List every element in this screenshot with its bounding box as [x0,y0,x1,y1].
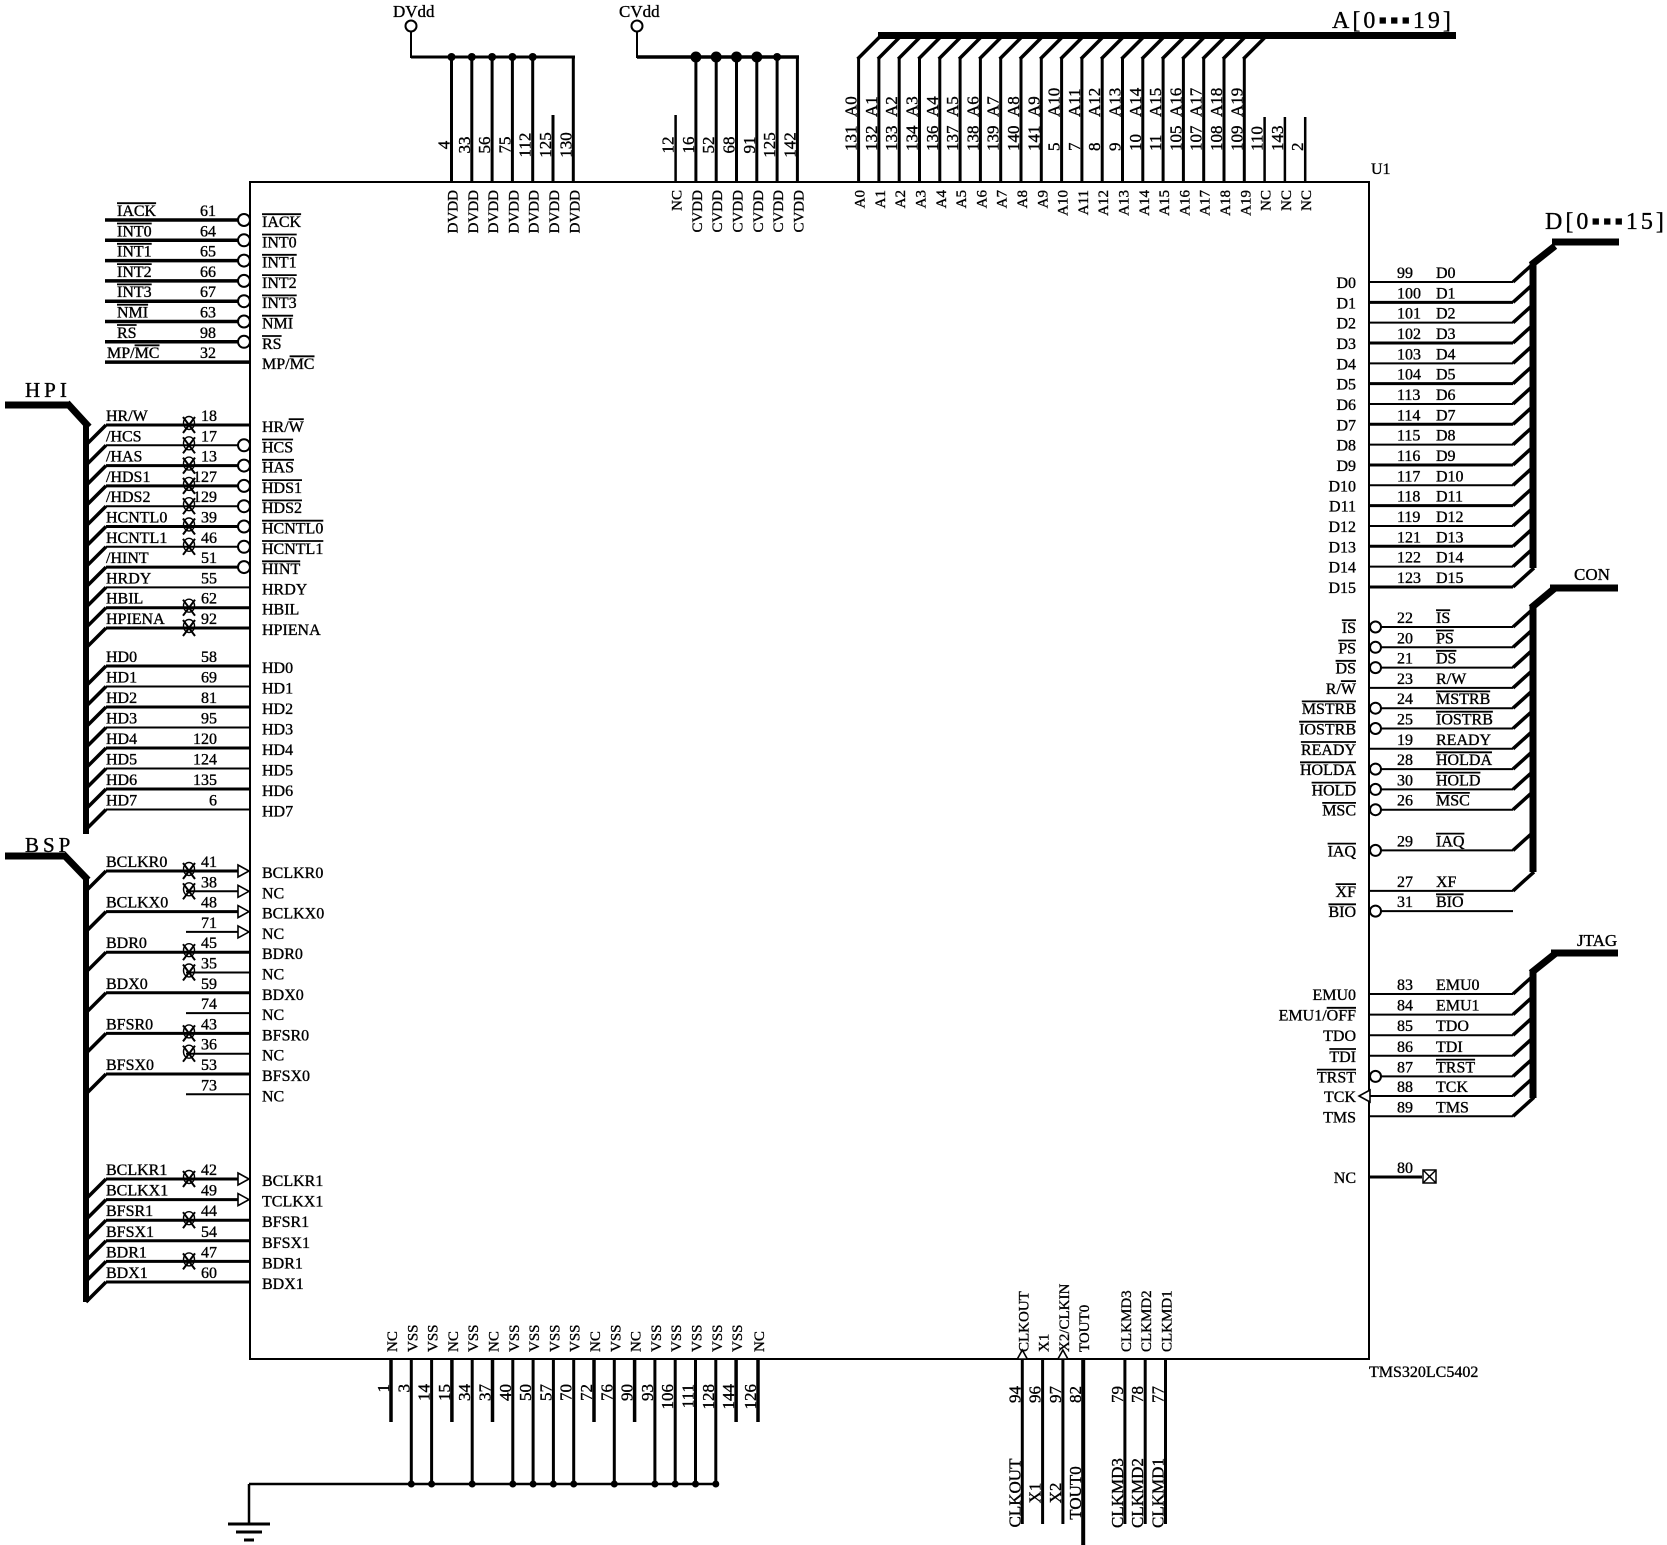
svg-text:TMS: TMS [1323,1109,1356,1126]
svg-text:TCK: TCK [1436,1079,1468,1096]
svg-text:BFSR0: BFSR0 [262,1027,309,1044]
pin 135 HD6 wire [86,772,293,809]
svg-text:CVDD: CVDD [710,190,726,233]
svg-text:DVDD: DVDD [446,190,462,233]
svg-text:A14: A14 [1137,190,1153,216]
pin 25 IOSTRB wire [1299,710,1534,739]
svg-text:47: 47 [201,1244,217,1261]
svg-text:99: 99 [1397,265,1413,282]
svg-text:57: 57 [536,1384,555,1402]
svg-text:/HAS: /HAS [106,449,142,466]
svg-text:A10: A10 [1056,190,1072,216]
svg-text:BIO: BIO [1436,894,1464,911]
svg-text:26: 26 [1397,793,1413,810]
svg-text:HINT: HINT [262,561,300,578]
pin 119 D12 wire [1328,507,1534,536]
svg-text:127: 127 [193,469,217,486]
svg-text:A18: A18 [1207,88,1226,117]
svg-text:TRST: TRST [1317,1069,1356,1086]
wire ground rail [249,1484,717,1523]
pin 34 VSS wire [455,1324,482,1487]
svg-text:READY: READY [1301,742,1357,759]
svg-text:52: 52 [699,137,718,154]
svg-text:42: 42 [201,1162,217,1179]
svg-text:D11: D11 [1436,489,1463,506]
svg-text:109: 109 [1227,126,1246,152]
svg-text:/HDS1: /HDS1 [106,469,150,486]
svg-text:50: 50 [516,1384,535,1401]
svg-text:HD6: HD6 [106,772,137,789]
svg-text:66: 66 [200,264,216,281]
svg-text:VSS: VSS [710,1324,726,1352]
svg-text:140: 140 [1004,126,1023,152]
svg-text:139: 139 [984,126,1003,151]
svg-text:58: 58 [201,649,217,666]
pin 66 INT2 wire [105,264,297,292]
pin 144 VSS wire [719,1324,746,1422]
svg-text:96: 96 [1026,1386,1045,1403]
svg-text:CVDD: CVDD [771,190,787,233]
svg-text:NC: NC [385,1331,401,1352]
pin 59 BDX0 wire [86,976,304,1013]
pin 114 D7 wire [1336,405,1534,434]
svg-text:IACK: IACK [117,203,157,220]
svg-text:NC: NC [752,1331,768,1352]
svg-text:VSS: VSS [527,1324,543,1352]
svg-text:84: 84 [1397,998,1413,1015]
svg-text:143: 143 [1268,126,1287,152]
svg-text:BFSX1: BFSX1 [262,1235,310,1252]
svg-text:X2/CLKIN: X2/CLKIN [1057,1284,1073,1352]
svg-text:INT1: INT1 [262,255,297,272]
pin 42 BCLKR1 wire [86,1162,323,1199]
svg-text:HCNTL0: HCNTL0 [106,510,167,527]
svg-text:39: 39 [201,510,217,527]
pin 117 D10 wire [1328,466,1534,495]
pin 1 NC wire [374,1331,401,1422]
pin 5 A10 wire [1045,37,1083,216]
svg-text:103: 103 [1397,346,1421,363]
svg-text:HD7: HD7 [262,804,293,821]
svg-text:111: 111 [679,1384,698,1408]
svg-text:87: 87 [1397,1059,1413,1076]
svg-text:A13: A13 [1106,88,1125,117]
svg-text:INT3: INT3 [117,284,152,301]
svg-text:VSS: VSS [608,1324,624,1352]
svg-text:CLKMD3: CLKMD3 [1108,1458,1127,1528]
svg-text:85: 85 [1397,1018,1413,1035]
svg-text:BDX0: BDX0 [106,976,148,993]
pin 58 HD0 wire [86,649,293,686]
svg-text:A11: A11 [1065,88,1084,117]
svg-text:32: 32 [200,345,216,362]
svg-text:TCK: TCK [1324,1089,1356,1106]
svg-text:77: 77 [1149,1386,1168,1404]
svg-text:MP/MC: MP/MC [107,345,159,362]
pin 55 HRDY wire [86,570,308,607]
svg-text:73: 73 [201,1077,217,1094]
svg-text:CLKMD2: CLKMD2 [1139,1290,1155,1352]
pin 100 D1 wire [1336,283,1534,312]
svg-text:INT2: INT2 [117,264,152,281]
pin 126 NC wire [741,1331,768,1422]
pin 111 VSS wire [679,1324,706,1487]
pin 15 NC wire [435,1331,462,1422]
ground [228,1524,270,1540]
pin 32 MP/MC wire [105,345,315,373]
svg-text:D4: D4 [1436,346,1456,363]
svg-text:NC: NC [262,926,284,943]
pin 125 CVDD wire [760,53,787,233]
pin 36 NC wire [183,1037,284,1065]
svg-text:A3: A3 [914,190,930,208]
svg-text:A7: A7 [984,96,1003,117]
svg-text:VSS: VSS [405,1324,421,1352]
pin 68 CVDD wire [720,52,747,233]
pin 136 A4 wire [923,37,961,208]
svg-text:48: 48 [201,895,217,912]
pin 22 IS wire [1342,608,1534,637]
svg-text:TDI: TDI [1436,1039,1463,1056]
svg-text:D12: D12 [1436,509,1464,526]
svg-text:36: 36 [201,1037,217,1054]
svg-text:HCNTL1: HCNTL1 [106,530,167,547]
svg-text:89: 89 [1397,1099,1413,1116]
svg-text:NC: NC [1259,190,1275,211]
svg-text:15: 15 [435,1384,454,1401]
svg-text:30: 30 [1397,772,1413,789]
pin 128 VSS wire [699,1324,726,1487]
svg-text:DVDD: DVDD [567,190,583,233]
svg-text:91: 91 [740,137,759,154]
svg-text:VSS: VSS [669,1324,685,1352]
svg-text:107: 107 [1187,125,1206,151]
svg-text:HD5: HD5 [262,763,293,780]
svg-text:VSS: VSS [730,1324,746,1352]
svg-text:D8: D8 [1336,438,1356,455]
svg-text:IS: IS [1436,610,1450,627]
svg-text:131: 131 [842,126,861,152]
pin 23 R/W wire [1326,669,1534,698]
svg-text:141: 141 [1024,126,1043,152]
svg-text:A10: A10 [1045,88,1064,117]
svg-text:NC: NC [629,1331,645,1352]
svg-text:DVDD: DVDD [547,190,563,233]
svg-text:A19: A19 [1238,190,1254,216]
svg-text:41: 41 [201,854,217,871]
svg-text:117: 117 [1397,468,1420,485]
svg-text:EMU0: EMU0 [1436,977,1480,994]
svg-text:TDI: TDI [1329,1049,1356,1066]
svg-text:D2: D2 [1336,316,1356,333]
svg-text:X2: X2 [1046,1483,1065,1504]
svg-text:128: 128 [699,1384,718,1410]
pin 45 BDR0 wire [86,935,303,972]
svg-text:63: 63 [200,305,216,322]
svg-text:A15: A15 [1146,88,1165,117]
svg-text:A5: A5 [943,96,962,117]
pin 123 D15 wire [1328,568,1534,597]
svg-text:118: 118 [1397,489,1420,506]
pin 95 HD3 wire [86,711,293,748]
svg-text:MP/MC: MP/MC [262,356,314,373]
svg-text:A16: A16 [1177,190,1193,216]
svg-text:BCLKR1: BCLKR1 [106,1162,167,1179]
svg-text:69: 69 [201,670,217,687]
pin 20 PS wire [1338,628,1534,657]
svg-text:CVDD: CVDD [791,190,807,233]
svg-text:28: 28 [1397,752,1413,769]
svg-text:29: 29 [1397,833,1413,850]
pin 9 A13 wire [1106,37,1144,216]
svg-text:RS: RS [117,325,137,342]
svg-text:MSC: MSC [1322,803,1356,820]
svg-text:6: 6 [209,793,217,810]
svg-text:IAQ: IAQ [1328,843,1357,860]
svg-text:A13: A13 [1117,190,1133,216]
svg-text:HPI: HPI [25,378,71,402]
pin 11 A15 wire [1146,37,1184,216]
pin 104 D5 wire [1336,365,1534,394]
pin 43 BFSR0 wire [86,1016,309,1053]
svg-text:A15: A15 [1157,190,1173,216]
svg-text:A7: A7 [995,190,1011,209]
pin 134 A3 wire [903,37,941,208]
svg-text:DVDD: DVDD [506,190,522,233]
svg-text:122: 122 [1397,550,1421,567]
pin 53 BFSX0 wire [86,1057,310,1094]
pin 82 TOUT0 wire [1066,1305,1093,1545]
svg-text:TOUT0: TOUT0 [1077,1305,1093,1352]
svg-text:D4: D4 [1336,356,1356,373]
pin 38 NC wire [183,874,284,902]
pin 67 INT3 wire [105,284,297,312]
pin 47 BDR1 wire [86,1244,303,1281]
svg-text:18: 18 [201,408,217,425]
pin 31 BIO wire [1328,894,1513,921]
pin 81 HD2 wire [86,690,293,727]
svg-text:BIO: BIO [1328,904,1356,921]
power port DVdd [393,2,575,58]
svg-text:54: 54 [201,1224,217,1241]
pin 64 INT0 wire [105,223,297,251]
svg-text:76: 76 [597,1384,616,1401]
svg-text:74: 74 [201,996,217,1013]
node BSP bus [5,833,88,1302]
pin 60 BDX1 wire [86,1265,304,1302]
pin 106 VSS wire [658,1324,685,1487]
svg-text:138: 138 [963,126,982,152]
svg-text:PS: PS [1436,630,1454,647]
svg-text:123: 123 [1397,570,1421,587]
svg-text:81: 81 [201,690,217,707]
svg-text:INT3: INT3 [262,295,297,312]
pin 120 HD4 wire [86,731,293,768]
svg-text:BCLKR0: BCLKR0 [262,865,323,882]
svg-text:HCNTL1: HCNTL1 [262,541,323,558]
svg-text:HD3: HD3 [262,722,293,739]
svg-text:D3: D3 [1436,326,1456,343]
svg-text:HD2: HD2 [106,690,137,707]
svg-text:HBIL: HBIL [106,591,143,608]
svg-text:31: 31 [1397,894,1413,911]
pin 10 A14 wire [1126,37,1164,216]
svg-text:20: 20 [1397,630,1413,647]
svg-text:A12: A12 [1096,190,1112,216]
svg-text:DS: DS [1336,661,1356,678]
pin 46 HCNTL1 wire [86,530,323,567]
svg-text:134: 134 [903,125,922,151]
svg-text:68: 68 [720,137,739,154]
svg-text:CLKMD2: CLKMD2 [1128,1458,1147,1528]
svg-text:D8: D8 [1436,428,1456,445]
svg-text:VSS: VSS [568,1324,584,1352]
pin 94 CLKOUT wire [1005,1291,1032,1527]
pin 44 BFSR1 wire [86,1203,309,1240]
svg-text:62: 62 [201,591,217,608]
pin 41 BCLKR0 wire [86,854,323,891]
svg-text:A0: A0 [842,96,861,117]
pin 139 A7 wire [984,37,1022,208]
svg-text:100: 100 [1397,285,1421,302]
svg-text:VSS: VSS [547,1324,563,1352]
svg-text:A11: A11 [1076,190,1092,215]
pin 37 NC wire [476,1331,503,1422]
pin 63 NMI wire [105,305,293,333]
power port CVdd [619,2,799,58]
svg-text:114: 114 [1397,407,1420,424]
svg-text:A0: A0 [853,190,869,208]
pin 70 VSS wire [557,1324,584,1487]
svg-text:22: 22 [1397,610,1413,627]
svg-text:A17: A17 [1198,190,1214,216]
svg-text:38: 38 [201,874,217,891]
svg-text:/HDS2: /HDS2 [106,489,150,506]
svg-text:D9: D9 [1436,448,1456,465]
pin 102 D3 wire [1336,324,1534,353]
pin 116 D9 wire [1336,446,1534,475]
pin 39 HCNTL0 wire [86,510,323,547]
pin 12 NC wire [659,115,686,211]
svg-text:TCLKX1: TCLKX1 [262,1194,323,1211]
pin 75 DVDD wire [495,53,522,233]
svg-text:21: 21 [1397,651,1413,668]
svg-text:BFSX0: BFSX0 [262,1068,310,1085]
svg-text:VSS: VSS [426,1324,442,1352]
svg-text:5: 5 [1045,143,1064,152]
svg-text:NC: NC [1279,190,1295,211]
IC U1 TMS320LC5402 chip body [250,182,1369,1359]
svg-text:NMI: NMI [117,305,148,322]
svg-text:116: 116 [1397,448,1420,465]
svg-text:DVDD: DVDD [486,190,502,233]
svg-text:108: 108 [1207,126,1226,152]
pin 40 VSS wire [496,1324,523,1487]
svg-text:INT1: INT1 [117,244,152,261]
svg-text:BDX1: BDX1 [262,1276,304,1293]
pin 99 D0 wire [1336,263,1534,292]
svg-text:NC: NC [446,1331,462,1352]
svg-text:92: 92 [201,611,217,628]
svg-text:BCLKR1: BCLKR1 [262,1173,323,1190]
pin 97 X2/CLKIN wire [1046,1284,1073,1524]
svg-text:12: 12 [659,137,678,154]
svg-text:14: 14 [415,1384,434,1402]
svg-text:HDS2: HDS2 [262,500,302,517]
svg-text:A4: A4 [923,96,942,117]
svg-text:121: 121 [1397,529,1421,546]
svg-text:40: 40 [496,1384,515,1401]
node D[0...15] bus [1531,209,1667,568]
svg-text:HOLD: HOLD [1312,782,1356,799]
svg-text:HRDY: HRDY [106,570,152,587]
pin 72 NC wire [577,1331,604,1422]
svg-text:142: 142 [780,132,799,158]
svg-text:D0: D0 [1336,275,1356,292]
svg-text:BCLKX0: BCLKX0 [106,895,168,912]
svg-text:70: 70 [557,1384,576,1401]
pin 61 IACK wire [105,203,302,231]
svg-text:A9: A9 [1035,190,1051,208]
pin 140 A8 wire [1004,37,1042,208]
svg-text:JTAG: JTAG [1577,931,1617,950]
svg-text:D3: D3 [1336,336,1356,353]
svg-text:TRST: TRST [1436,1059,1475,1076]
svg-text:IAQ: IAQ [1436,833,1465,850]
svg-text:D0: D0 [1436,265,1456,282]
svg-text:EMU0: EMU0 [1312,987,1356,1004]
svg-text:8: 8 [1085,143,1104,152]
pin 93 VSS wire [638,1324,665,1487]
svg-text:HAS: HAS [262,460,294,477]
pin 122 D14 wire [1328,548,1534,577]
svg-text:HD6: HD6 [262,783,293,800]
pin 103 D4 wire [1336,344,1534,373]
pin 73 NC wire [186,1077,284,1105]
svg-text:86: 86 [1397,1039,1413,1056]
pin 69 HD1 wire [86,670,293,707]
pin 51 /HINT wire [86,550,300,587]
svg-text:NC: NC [262,1007,284,1024]
svg-text:R/W: R/W [1436,671,1467,688]
svg-text:75: 75 [495,137,514,154]
pin 89 TMS wire [1323,1097,1534,1126]
svg-text:D13: D13 [1436,529,1464,546]
svg-text:CLKMD1: CLKMD1 [1149,1458,1168,1528]
svg-text:45: 45 [201,935,217,952]
svg-text:BFSR0: BFSR0 [106,1016,153,1033]
svg-text:D9: D9 [1336,458,1356,475]
svg-text:CON: CON [1574,565,1610,584]
svg-text:TOUT0: TOUT0 [1066,1466,1085,1520]
svg-text:BDX1: BDX1 [106,1265,148,1282]
svg-text:88: 88 [1397,1079,1413,1096]
svg-text:137: 137 [943,125,962,151]
svg-text:D14: D14 [1436,550,1464,567]
svg-text:R/W: R/W [1326,681,1357,698]
svg-text:104: 104 [1397,367,1421,384]
pin 29 IAQ wire [1328,831,1534,860]
svg-text:135: 135 [193,772,217,789]
svg-text:A18: A18 [1218,190,1234,216]
svg-text:HD0: HD0 [262,660,293,677]
pin 52 CVDD wire [699,52,726,233]
node HPI bus [5,378,89,834]
svg-text:112: 112 [516,133,535,158]
svg-text:BFSX0: BFSX0 [106,1057,154,1074]
pin 84 EMU1/OFF wire [1279,996,1534,1025]
pin 57 VSS wire [536,1324,563,1487]
